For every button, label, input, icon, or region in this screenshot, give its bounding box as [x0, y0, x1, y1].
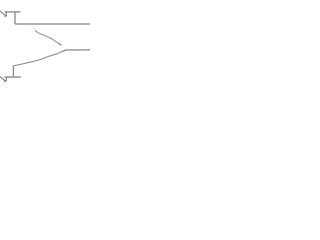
switch S1 blade tip blob: [4, 15, 6, 17]
wire: vertical drop from S1 wire to top rail: [14, 12, 16, 24]
wire: right horizontal to lamp: [65, 49, 90, 51]
wire: open throw diagonal from top rail: [35, 30, 61, 45]
wire: vertical riser from S2 wire: [12, 66, 14, 77]
switch S2 fixed contact jaw: [5, 77, 7, 81]
wire: elbow emphasis on rising wire: [62, 50, 67, 52]
faint label smudge under S2: [2, 83, 5, 84]
switch S1 blade: [0, 11, 6, 16]
wire: top rail: [15, 23, 90, 25]
switch S2 blade: [0, 76, 6, 81]
switch S1 fixed contact jaw: [5, 12, 7, 16]
wire: rising diagonal to right side: [13, 50, 66, 66]
wire: S2 common horizontal: [5, 76, 21, 78]
wire: S1 common horizontal: [5, 11, 21, 13]
wire: open throw faint upper segment: [31, 25, 35, 30]
wire: open throw dark tail: [59, 44, 62, 45]
switch S2 blade tip blob: [4, 80, 6, 82]
